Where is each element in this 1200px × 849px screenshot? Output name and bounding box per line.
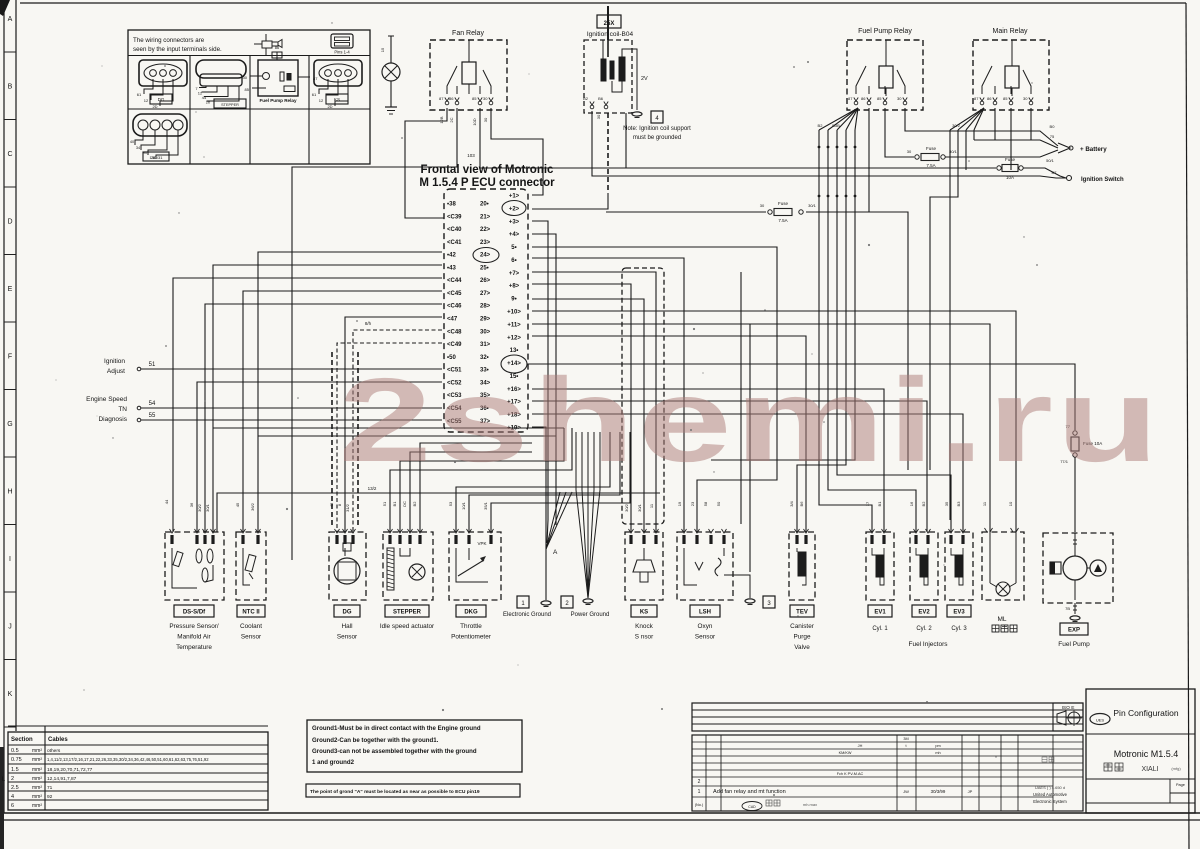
svg-text:54: 54: [149, 401, 156, 407]
wire pin7 to KS shield: [532, 272, 656, 532]
svg-text:Purge: Purge: [793, 634, 810, 641]
fuel pump EXP box: [1043, 533, 1113, 603]
terminal 25X box: [597, 15, 621, 28]
svg-text:3M: 3M: [903, 737, 908, 741]
svg-text:Hall: Hall: [341, 623, 352, 630]
svg-text:B: B: [8, 84, 13, 91]
svg-text:22>: 22>: [480, 227, 491, 233]
svg-text:5•: 5•: [511, 245, 516, 251]
wire pin47 to hall: [345, 317, 442, 532]
svg-text:+4>: +4>: [509, 232, 520, 238]
svg-text:2.5: 2.5: [11, 785, 19, 791]
wire pressure long 13/2: [217, 493, 660, 532]
ignition coil box: [584, 40, 632, 113]
hall sensor DG: [329, 532, 366, 600]
svg-text:<C46: <C46: [447, 304, 462, 310]
wire fan relay 86 down-left: [292, 108, 457, 560]
ignition coil windings: [601, 59, 606, 81]
pressure sensor DS-S/DF: [165, 532, 224, 600]
wire pin3 to ground A: [532, 221, 548, 543]
svg-text:Cyl. 1: Cyl. 1: [872, 626, 888, 632]
svg-text:Sensor: Sensor: [695, 634, 716, 641]
svg-text:44: 44: [164, 499, 169, 504]
wire pinC45 to coolant: [243, 291, 442, 532]
svg-text:A: A: [8, 16, 13, 23]
svg-text:+1>: +1>: [509, 194, 520, 200]
svg-text:B1: B1: [877, 501, 882, 507]
svg-text:mm²: mm²: [32, 767, 42, 773]
svg-text:Ground2-Can be together with t: Ground2-Can be together with the ground1…: [312, 737, 439, 744]
svg-text:Ground3-can not be assembled t: Ground3-can not be assembled together wi…: [312, 748, 477, 755]
svg-text:Ground1-Must be in direct cont: Ground1-Must be in direct contact with t…: [312, 725, 481, 732]
wire fan relay 85 to supply: [479, 108, 481, 168]
svg-text:7.5A: 7.5A: [778, 218, 787, 223]
svg-text:1: 1: [698, 789, 701, 795]
wire throttle 3: [491, 432, 630, 532]
svg-text:S nsor: S nsor: [635, 634, 654, 641]
svg-text:JW: JW: [903, 789, 909, 794]
svg-text:<C44: <C44: [447, 278, 462, 284]
svg-text:30: 30: [596, 114, 601, 119]
border frame top edge: [20, 2, 1186, 4]
wire branch y436: [258, 435, 556, 437]
svg-text:7B: 7B: [1065, 606, 1070, 611]
wire fuel relay 86 down: [868, 108, 870, 212]
svg-text:30/2: 30/2: [197, 503, 202, 512]
svg-text:+11>: +11>: [507, 322, 521, 328]
ground oxygen sensor: [745, 599, 755, 603]
fuse F1 7.5A: [915, 155, 919, 159]
fuse F4 10A vertical: [1073, 431, 1077, 435]
wire main bundle B3: [965, 130, 967, 170]
svg-text:25•: 25•: [480, 265, 489, 271]
svg-text:13C/31: 13C/31: [150, 155, 164, 160]
svg-text:2: 2: [11, 776, 14, 782]
notes ground box: [307, 720, 522, 772]
svg-text:+8>: +8>: [509, 284, 520, 290]
section cables table: [8, 732, 268, 810]
svg-text:KM/KW: KM/KW: [839, 751, 852, 755]
svg-text:24>: 24>: [480, 253, 491, 259]
svg-text:Motronic M1.5.4: Motronic M1.5.4: [1114, 749, 1179, 759]
fan relay K1 box: [430, 40, 507, 110]
svg-text:20•: 20•: [480, 202, 489, 208]
svg-text:2C: 2C: [449, 117, 454, 122]
hall shield dashed lines: [331, 352, 333, 526]
wire bundle A4 to TEV: [797, 130, 846, 532]
svg-text:DG: DG: [158, 97, 165, 102]
svg-text:Coolant: Coolant: [240, 623, 262, 630]
wire pinC49 to hall shield: [337, 343, 442, 532]
svg-text:mh: mh: [935, 751, 940, 755]
svg-text:30/2: 30/2: [952, 123, 961, 128]
svg-text:30: 30: [760, 203, 765, 208]
svg-text:STEPPER: STEPPER: [393, 610, 422, 616]
svg-text:Cyl. 3: Cyl. 3: [951, 626, 967, 632]
svg-text:(No.): (No.): [695, 803, 704, 807]
wire pin12 to TEV: [532, 336, 806, 532]
svg-text:26>: 26>: [480, 278, 491, 284]
wire throttle 2: [469, 432, 620, 532]
ECU circled pin 14: [501, 355, 527, 373]
svg-text:Temperature: Temperature: [176, 644, 212, 651]
svg-text:DC: DC: [402, 501, 407, 507]
legend connector C (3-pin): [314, 60, 362, 86]
svg-text:Manifold Air: Manifold Air: [177, 634, 211, 641]
svg-text:Potentiometer: Potentiometer: [451, 634, 492, 641]
svg-text:mm²: mm²: [32, 803, 42, 809]
svg-text:H: H: [7, 489, 12, 496]
svg-text:10/1: 10/1: [461, 501, 466, 510]
svg-text:Valve: Valve: [794, 644, 810, 651]
svg-text:19: 19: [677, 501, 682, 506]
battery node arrow: [1058, 143, 1070, 153]
svg-text:0.5: 0.5: [11, 748, 19, 754]
svg-text:Adjust: Adjust: [107, 368, 125, 375]
svg-text:STEPPER: STEPPER: [221, 103, 239, 107]
svg-text:58: 58: [703, 501, 708, 506]
wire fuse F1 to battery: [945, 150, 1058, 157]
svg-text:EXP: EXP: [1068, 628, 1080, 634]
svg-text:Pin Configuration: Pin Configuration: [1113, 708, 1178, 718]
svg-text:Sensor: Sensor: [337, 634, 358, 641]
wire stepper feed top: [531, 442, 533, 444]
svg-text:pm: pm: [935, 744, 940, 748]
svg-text:D: D: [7, 219, 12, 226]
svg-text:2shemi.ru: 2shemi.ru: [338, 354, 1162, 487]
fan motor M1: [382, 63, 400, 81]
fan relay K1 contact: [447, 66, 457, 94]
ignition switch terminal: [1067, 176, 1072, 181]
ignition coil HT output 2V: [622, 49, 637, 110]
svg-text:2D: 2D: [152, 104, 157, 109]
svg-text:27>: 27>: [480, 291, 491, 297]
svg-text:B2: B2: [583, 96, 589, 101]
svg-text:Fuel Injectors: Fuel Injectors: [908, 641, 948, 648]
svg-text:+7>: +7>: [509, 271, 520, 277]
svg-text:4: 4: [11, 794, 14, 800]
svg-text:71: 71: [47, 785, 53, 791]
title block main table: [692, 735, 1083, 811]
svg-text:B6: B6: [799, 501, 804, 507]
svg-text:85: 85: [245, 87, 250, 92]
svg-text:K: K: [8, 691, 13, 698]
ML lamp box: [982, 532, 1024, 600]
svg-text:•43: •43: [447, 265, 456, 271]
svg-text:12B: 12B: [439, 116, 444, 123]
svg-text:ML: ML: [997, 616, 1006, 623]
svg-text:28>: 28>: [480, 304, 491, 310]
UAES oval logo: [1090, 714, 1110, 725]
knock sensor KS: [625, 532, 663, 600]
legend fuel pump relay cell: [258, 60, 298, 96]
injector EV1: [866, 532, 894, 600]
svg-text:Cyl. 2: Cyl. 2: [916, 626, 932, 632]
svg-text:Sensor: Sensor: [241, 634, 262, 641]
svg-text:30/1: 30/1: [205, 503, 210, 512]
wire pinC55 diagnosis: [141, 419, 442, 421]
svg-text:10D: 10D: [472, 118, 477, 125]
svg-text:B2: B2: [412, 501, 417, 507]
svg-text:43: 43: [329, 502, 334, 507]
svg-text:50/1: 50/1: [1046, 158, 1055, 163]
svg-text:Electronic System: Electronic System: [1033, 799, 1067, 804]
svg-text:B7: B7: [1052, 170, 1058, 175]
wire pin17 to EV2: [532, 401, 927, 532]
svg-text:Pressure Sensor/: Pressure Sensor/: [169, 623, 219, 630]
svg-text:•38: •38: [447, 202, 456, 208]
ISO E projection box: [1053, 703, 1083, 731]
svg-text:<C40: <C40: [447, 227, 462, 233]
svg-text:Fan Relay: Fan Relay: [452, 30, 484, 37]
svg-text:86: 86: [275, 45, 280, 50]
legend connector B (4-pin): [196, 60, 246, 78]
throttle pot DKG: [449, 532, 501, 600]
svg-text:Cables: Cables: [48, 737, 68, 743]
svg-text:Ignition Switch: Ignition Switch: [1081, 177, 1124, 183]
svg-text:31/2: 31/2: [345, 503, 350, 512]
svg-text:(mfg): (mfg): [1171, 766, 1181, 771]
svg-text:CAD: CAD: [748, 805, 756, 809]
wire bundle A3 to EV3: [837, 130, 951, 532]
svg-text:92: 92: [47, 794, 53, 800]
wire pin line y212 with fuse: [606, 211, 766, 213]
svg-text:3/4: 3/4: [789, 500, 794, 506]
svg-text:2b: 2b: [206, 100, 211, 105]
svg-text:30/3/99: 30/3/99: [931, 789, 946, 794]
svg-text:Page: Page: [1176, 783, 1185, 787]
svg-text:UES: UES: [1096, 718, 1105, 723]
svg-text:1,4,11/2,13,17/2,16,17,21,22,2: 1,4,11/2,13,17/2,16,17,21,22,26,33,35,30…: [47, 757, 209, 762]
svg-text:10: 10: [1008, 501, 1013, 506]
svg-text:8/h: 8/h: [365, 321, 372, 326]
svg-text:87: 87: [439, 96, 444, 101]
svg-text:Throttle: Throttle: [460, 623, 482, 630]
svg-text:34: 34: [136, 146, 140, 150]
svg-text:DKG: DKG: [464, 610, 478, 616]
wire main relay 86 join: [994, 108, 996, 140]
svg-text:31>: 31>: [480, 342, 491, 348]
note ground A box: [306, 784, 520, 797]
svg-text:18,19,20,70,71,72,77: 18,19,20,70,71,72,77: [47, 767, 93, 773]
svg-text:LSH: LSH: [699, 610, 711, 616]
svg-text:A: A: [553, 549, 558, 556]
svg-text:B3: B3: [956, 501, 961, 507]
wire stepper 2: [410, 452, 532, 532]
svg-text:15: 15: [380, 47, 385, 52]
svg-text:I: I: [9, 556, 11, 563]
wire stepper 4: [390, 428, 572, 532]
wire fuel relay 85 down: [885, 108, 914, 157]
fuel pump relay pins: [854, 101, 858, 105]
svg-text:EV1: EV1: [874, 610, 886, 616]
svg-text:J: J: [8, 624, 12, 631]
svg-text:Power Ground: Power Ground: [571, 612, 610, 618]
svg-text:mh.max: mh.max: [803, 802, 817, 807]
svg-text:+3>: +3>: [509, 219, 520, 225]
scan mark bottom-left edge: [0, 747, 4, 849]
ground ignition coil support: [632, 112, 642, 116]
svg-text:12: 12: [144, 98, 149, 103]
svg-text:53: 53: [448, 501, 453, 506]
svg-text:45: 45: [235, 502, 240, 507]
svg-text:Fuel Pump Relay: Fuel Pump Relay: [259, 98, 296, 103]
svg-text:25X: 25X: [604, 21, 615, 27]
legend small box icon: [331, 34, 353, 48]
svg-text:<C41: <C41: [447, 240, 462, 246]
svg-text:mm²: mm²: [32, 748, 42, 754]
wire 25X feed: [607, 6, 609, 40]
svg-text:Main Relay: Main Relay: [992, 28, 1028, 35]
svg-text:Fuel Pump Relay: Fuel Pump Relay: [858, 28, 912, 35]
ground1 electronic ground box: [517, 596, 529, 608]
svg-text:2: 2: [698, 779, 701, 785]
wire stepper 3: [400, 428, 564, 532]
svg-text:36/2: 36/2: [250, 502, 255, 511]
KS shield dashed box: [622, 268, 664, 524]
fuel pump plate: [1060, 623, 1088, 635]
svg-text:Ignition: Ignition: [104, 358, 125, 365]
svg-text:23>: 23>: [480, 240, 491, 246]
svg-text:86: 86: [987, 96, 992, 101]
legend connector A (3-pin): [139, 60, 187, 86]
fan relay K1 pins: [445, 101, 449, 105]
svg-text:9•: 9•: [511, 297, 516, 303]
svg-text:21>: 21>: [480, 214, 491, 220]
purge valve TEV: [789, 532, 815, 600]
svg-text:0.75: 0.75: [11, 757, 22, 763]
svg-text:The wiring connectors are: The wiring connectors are: [133, 37, 205, 44]
title block upper band: [692, 703, 1083, 731]
wire pin6 to LSH: [532, 258, 684, 532]
wire bundle fan from fuel relay 87: [819, 108, 858, 130]
ECU circled pin 24: [473, 248, 499, 263]
svg-text:E: E: [8, 286, 13, 293]
svg-text:6•: 6•: [511, 258, 516, 264]
scan mark top-left corner: [0, 0, 10, 16]
wire coil 30 feed horizontal: [592, 111, 1066, 178]
wire main relay 30 battery line: [1030, 108, 1032, 140]
UAES company text: [1042, 757, 1054, 762]
wire pinC54 engine speed: [141, 407, 442, 409]
svg-text:B1: B1: [392, 501, 397, 507]
svg-text:12,14,91,7,87: 12,14,91,7,87: [47, 776, 77, 782]
svg-text:G: G: [7, 421, 12, 428]
svg-text:Oxyn: Oxyn: [698, 623, 713, 630]
wire ignition coil to pin2 dashed: [607, 113, 609, 193]
wire main bundle B4: [973, 130, 975, 140]
svg-text:61: 61: [137, 92, 142, 97]
wire pin43 to pressure: [213, 265, 442, 532]
injector EV3: [945, 532, 973, 600]
legend box outline: [128, 30, 370, 164]
svg-text:NTC II: NTC II: [242, 610, 260, 616]
svg-text:61: 61: [312, 92, 317, 97]
svg-text:Fuse: Fuse: [1005, 157, 1016, 162]
svg-text:2V: 2V: [641, 76, 648, 82]
fan relay K1 coil: [462, 62, 476, 84]
svg-text:30>: 30>: [480, 329, 491, 335]
wire pin10 to ML right: [532, 311, 1016, 532]
svg-text:TEV: TEV: [796, 610, 808, 616]
wire pin8 to KS: [532, 284, 631, 532]
pin configuration box: [1086, 689, 1195, 813]
svg-text:86: 86: [449, 96, 454, 101]
ECU circled pin 2: [502, 201, 526, 216]
svg-text:Section: Section: [11, 737, 33, 743]
wire A fan: [546, 492, 560, 549]
main relay coil: [1005, 66, 1019, 88]
wire bundle fan from main relay 87: [950, 108, 984, 130]
svg-text:DG: DG: [343, 610, 352, 616]
wire pin14 to fuel pump fuse: [527, 364, 1075, 430]
svg-text:30: 30: [1023, 96, 1028, 101]
svg-text:30/1: 30/1: [637, 503, 642, 512]
svg-text:36: 36: [189, 502, 194, 507]
wire main relay 85 to ign line: [1010, 108, 1012, 170]
wire pin9 to KS: [532, 299, 644, 532]
fan motor wire: [390, 36, 392, 63]
svg-text:1 and ground2: 1 and ground2: [312, 759, 355, 766]
wire fuse to ignition switch: [1023, 168, 1066, 178]
svg-text:Idle speed actuator: Idle speed actuator: [380, 623, 435, 630]
svg-text:7.5A: 7.5A: [926, 163, 935, 168]
svg-text:mm²: mm²: [32, 776, 42, 782]
svg-text:103: 103: [467, 153, 475, 158]
svg-text:others: others: [47, 748, 61, 754]
svg-text:EV3: EV3: [953, 610, 965, 616]
svg-text:+ Battery: + Battery: [1080, 146, 1107, 153]
ignition coil pins: [590, 105, 594, 109]
svg-text:<47: <47: [447, 317, 458, 323]
wire bundle A2 to EV2: [828, 130, 916, 532]
svg-text:•42: •42: [447, 253, 456, 259]
svg-text:30: 30: [897, 96, 902, 101]
svg-text:Note: Ignition coil support: Note: Ignition coil support: [623, 126, 691, 132]
ground 1 pad: [541, 601, 551, 605]
svg-text:85: 85: [877, 96, 882, 101]
svg-text:Fuse: Fuse: [778, 201, 789, 206]
svg-text:85: 85: [1003, 96, 1008, 101]
svg-text:40: 40: [130, 140, 134, 144]
wire shield drain to ground: [749, 324, 751, 572]
fuel pump relay box: [847, 40, 923, 110]
svg-text:KS: KS: [334, 97, 340, 102]
legend connector D (4-circle): [133, 114, 187, 136]
wire pinC52 to pressure: [197, 382, 442, 532]
svg-text:<C49: <C49: [447, 342, 462, 348]
wire main bundle B1 long down: [949, 130, 951, 520]
svg-text:6: 6: [11, 803, 14, 809]
svg-text:TN: TN: [118, 406, 127, 413]
wire pin19 to ground A: [532, 427, 546, 543]
svg-text:87: 87: [974, 96, 979, 101]
svg-text:Fuel Pump: Fuel Pump: [1058, 641, 1090, 648]
border left column: [3, 0, 5, 813]
svg-text:mm²: mm²: [32, 757, 42, 763]
svg-text:B5B: B5B: [832, 123, 840, 128]
svg-text:B2: B2: [921, 501, 926, 507]
svg-text:Electronic Ground: Electronic Ground: [503, 612, 551, 618]
note 4 box: [651, 111, 663, 123]
idle actuator STEPPER: [383, 532, 433, 600]
svg-text:30: 30: [483, 96, 488, 101]
wire fan relay 30 to pin1: [491, 108, 543, 195]
svg-text:JH: JH: [858, 744, 863, 748]
svg-text:35: 35: [944, 501, 949, 506]
svg-text:+2>: +2>: [509, 206, 520, 212]
svg-text:17: 17: [865, 501, 870, 506]
